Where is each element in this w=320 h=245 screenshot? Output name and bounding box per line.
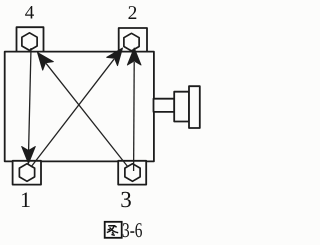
- wire arrow line 1 to 2 (diagonal): [31, 59, 114, 167]
- hex bolt 1: [19, 164, 34, 182]
- shaft flange: [174, 92, 189, 122]
- arrowhead at bolt 2 vertical (pointing up): [127, 48, 141, 65]
- hex bolt 4: [22, 33, 37, 51]
- wire arrow line 3 to 4 (diagonal): [46, 63, 128, 167]
- svg-text:2: 2: [128, 3, 138, 24]
- tab of bolt 4: [17, 27, 44, 51]
- arrowhead at bolt 1 (pointing down): [22, 147, 36, 164]
- arrowhead at bolt 4 (pointing up-left): [32, 48, 53, 70]
- hex bolt 3: [125, 164, 140, 182]
- tab of bolt 2: [119, 28, 147, 52]
- wire arrow line 3 to 2 (right vertical): [133, 62, 136, 171]
- svg-text:4: 4: [25, 2, 35, 23]
- main body rectangle: [5, 52, 154, 162]
- shaft end cap: [189, 86, 200, 128]
- svg-text:1: 1: [20, 187, 31, 212]
- svg-text:3-6: 3-6: [122, 218, 143, 242]
- wire arrow line 4 to 1 (left vertical): [29, 48, 31, 150]
- shaft on right side: [154, 99, 175, 112]
- arrowhead at bolt 2 from diagonal (pointing up-right): [107, 44, 128, 66]
- caption character 图 drawn as strokes: [105, 222, 122, 238]
- tab of bolt 3: [118, 161, 146, 185]
- hex bolt 2: [124, 33, 139, 51]
- tab of bolt 1: [13, 161, 41, 185]
- svg-text:3: 3: [120, 187, 132, 212]
